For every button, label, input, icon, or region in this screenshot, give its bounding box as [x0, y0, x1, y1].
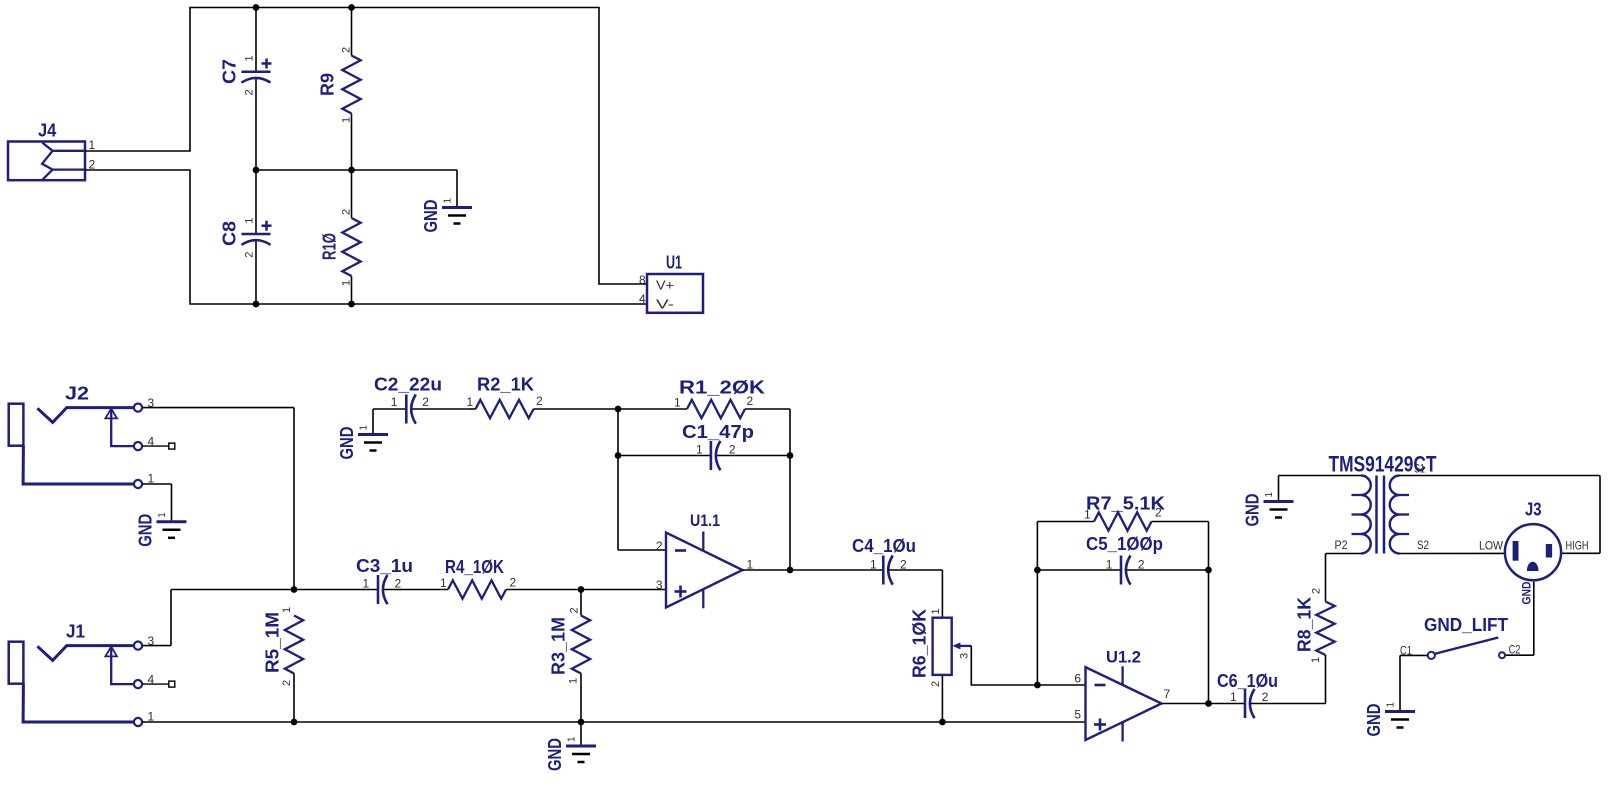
pin labels R3: [568, 607, 581, 684]
capacitor C3: [378, 575, 388, 604]
capacitor C8: [242, 170, 272, 304]
ground GND6: [1385, 712, 1415, 728]
label R5: [263, 612, 283, 673]
pin labels C7: [244, 55, 256, 95]
svg-text:1: 1: [1310, 657, 1322, 663]
op-amp U1.1: [666, 532, 743, 609]
capacitor C6: [1245, 689, 1326, 718]
svg-text:2: 2: [1138, 557, 1145, 571]
svg-text:S2: S2: [1417, 538, 1429, 552]
wire switch C1 to ground: [1400, 655, 1428, 711]
svg-text:2: 2: [341, 209, 353, 215]
resistor R1: [618, 400, 790, 418]
junction R5 top: [291, 586, 298, 593]
pin 1 label GND4: [567, 736, 578, 742]
connector J1: [9, 642, 175, 727]
svg-text:2: 2: [244, 252, 256, 258]
svg-text:C5_1ØØp: C5_1ØØp: [1086, 534, 1163, 554]
svg-text:C2: C2: [1509, 643, 1521, 657]
pin labels J4: [89, 138, 96, 172]
junction R9 top: [348, 4, 355, 11]
capacitor C5: [1037, 556, 1208, 585]
junction C7 top: [253, 4, 260, 11]
pin labels J1: [148, 634, 155, 724]
switch GND_LIFT: [1428, 638, 1505, 660]
pin labels R6: [930, 608, 971, 687]
label GND3 GND: [337, 427, 357, 460]
resistor R4: [448, 580, 506, 598]
resistor R9: [342, 8, 360, 171]
junction C1 left: [615, 452, 622, 459]
svg-text:C2_22u: C2_22u: [374, 375, 442, 395]
wire U1.2 feedback left vertical: [1036, 522, 1038, 686]
label U1.1: [690, 511, 720, 530]
svg-text:GND: GND: [337, 427, 357, 460]
pin labels C3: [363, 577, 402, 591]
power box U1: [647, 274, 703, 313]
wire J1 pin3 riser: [142, 590, 171, 646]
label GND_LIFT: [1424, 615, 1508, 635]
svg-text:1: 1: [244, 218, 256, 224]
svg-text:U1: U1: [666, 253, 682, 273]
junction R5 bottom: [291, 719, 298, 726]
wire J2 pin3 to input node: [142, 408, 294, 590]
wire U1.2 feedback right vertical: [1208, 522, 1210, 704]
svg-text:GND: GND: [545, 738, 565, 771]
svg-text:GND: GND: [1519, 581, 1533, 604]
ground GND4: [566, 746, 596, 762]
wire J3 ground pin to switch: [1505, 582, 1534, 656]
label C6: [1217, 671, 1278, 691]
svg-text:R8_1K: R8_1K: [1295, 597, 1315, 652]
capacitor C1: [618, 441, 790, 470]
connector J4: [8, 142, 85, 181]
label R1: [679, 378, 765, 398]
resistor R7: [1037, 512, 1208, 530]
svg-text:1: 1: [568, 678, 580, 684]
pin labels U1.1: [656, 539, 754, 592]
svg-text:4: 4: [148, 673, 155, 687]
junction C1 right: [787, 452, 794, 459]
wire C2 to ground: [372, 409, 374, 435]
svg-text:J1: J1: [66, 622, 85, 642]
label C2: [374, 375, 442, 395]
pin labels C4: [870, 557, 907, 571]
svg-text:C3_1u: C3_1u: [356, 556, 413, 576]
wire secondary bottom to J3 LOW: [1400, 552, 1505, 554]
svg-text:1: 1: [89, 138, 96, 152]
wire U1.2 output row: [1162, 703, 1246, 705]
svg-text:1: 1: [440, 576, 447, 590]
pin labels GND_LIFT: [1400, 643, 1521, 658]
resistor R8: [1316, 554, 1361, 704]
svg-text:1: 1: [1230, 690, 1237, 704]
wire J4 pin2 to bottom V- rail: [85, 170, 647, 304]
resistor R5: [285, 616, 303, 723]
capacitor C4: [883, 556, 942, 618]
svg-text:1: 1: [281, 607, 293, 613]
svg-text:1: 1: [870, 557, 877, 571]
svg-text:R1Ø: R1Ø: [320, 233, 340, 260]
svg-text:2: 2: [510, 576, 517, 590]
svg-text:7: 7: [1164, 687, 1171, 701]
wire R6 wiper to U1.2 inverting input: [971, 646, 1085, 685]
pin labels U1: [639, 273, 646, 306]
label R7: [1086, 494, 1165, 514]
junction C5 left: [1034, 567, 1041, 574]
svg-text:2: 2: [281, 680, 293, 686]
connector J2: [9, 404, 175, 489]
svg-text:GND: GND: [421, 200, 441, 233]
svg-text:1: 1: [467, 395, 474, 409]
junction C7-C8 mid: [253, 167, 260, 174]
pin labels transformer: [1335, 462, 1430, 553]
junction R3 top: [578, 586, 585, 593]
pin labels C8: [244, 218, 256, 258]
junction U1.2 inverting node: [1034, 682, 1041, 689]
svg-text:2: 2: [569, 607, 581, 613]
svg-text:R9: R9: [318, 73, 338, 96]
svg-text:1: 1: [567, 736, 578, 742]
ground GND5: [1264, 502, 1294, 518]
wire bottom rail: [142, 721, 1085, 723]
svg-text:2: 2: [536, 394, 543, 408]
potentiometer R6: [933, 618, 972, 722]
svg-text:R2_1K: R2_1K: [477, 375, 534, 395]
svg-text:2: 2: [930, 681, 942, 687]
label U1.2: [1106, 648, 1141, 667]
ground GND2: [157, 522, 187, 538]
label R10: [320, 233, 340, 260]
label C8: [220, 221, 240, 246]
svg-text:1: 1: [696, 443, 703, 457]
label R2: [477, 375, 534, 395]
svg-text:C6_1Øu: C6_1Øu: [1217, 671, 1278, 691]
svg-text:GND_LIFT: GND_LIFT: [1424, 615, 1508, 635]
svg-text:R3_1M: R3_1M: [549, 617, 569, 675]
wire feedback node to U1.1 inverting input: [618, 409, 666, 550]
svg-text:S1: S1: [1414, 462, 1425, 476]
svg-text:HIGH: HIGH: [1566, 539, 1589, 553]
pin labels R7: [1084, 506, 1162, 522]
pin 1 label GND1: [443, 198, 454, 204]
pin labels R1: [674, 394, 754, 410]
capacitor C7: [242, 8, 272, 171]
svg-text:4: 4: [148, 435, 155, 449]
svg-text:1: 1: [157, 512, 168, 518]
pin labels R8: [1310, 588, 1323, 663]
svg-text:C8: C8: [220, 221, 240, 246]
pin 1 label GND3: [359, 425, 370, 431]
label C5: [1086, 534, 1163, 554]
junction R10 bottom: [348, 301, 355, 308]
pin labels U1.2: [1074, 672, 1170, 722]
pin labels C6: [1230, 690, 1269, 704]
label GND1 GND: [421, 200, 441, 233]
pin 1 label GND2: [157, 512, 168, 518]
resistor R3: [572, 590, 590, 723]
svg-text:1: 1: [244, 55, 256, 61]
svg-text:R4_1ØK: R4_1ØK: [445, 557, 504, 577]
svg-text:3: 3: [959, 653, 971, 659]
pin labels R10: [341, 209, 353, 286]
wire U1.1 output row: [743, 569, 884, 571]
junction C8 bottom: [253, 301, 260, 308]
wire R1-C1 to U1.1 output: [789, 409, 791, 570]
svg-text:V-: V-: [656, 297, 674, 312]
svg-text:6: 6: [1074, 672, 1081, 686]
junction R3 bottom: [578, 719, 585, 726]
pin labels C1: [696, 443, 736, 457]
pin labels R2: [467, 394, 544, 409]
pin labels C2: [391, 395, 430, 409]
svg-text:2: 2: [422, 395, 429, 409]
connector J3: [1505, 524, 1561, 580]
junction U1.2 output: [1205, 700, 1212, 707]
junction R6 bottom: [939, 719, 946, 726]
wire input row: [171, 589, 666, 591]
svg-text:V+: V+: [656, 278, 674, 293]
svg-text:2: 2: [395, 577, 402, 591]
label C7: [220, 59, 240, 84]
wire J4 pin1 to top V+ rail: [85, 8, 647, 285]
svg-text:C4_1Øu: C4_1Øu: [852, 536, 916, 556]
resistor R2: [470, 400, 618, 418]
svg-text:P2: P2: [1335, 538, 1348, 552]
svg-text:1: 1: [341, 280, 353, 286]
label TMS91429CT: [1329, 452, 1437, 477]
label J2: [65, 384, 89, 404]
svg-text:1: 1: [443, 198, 454, 204]
pin labels J3: [1479, 539, 1589, 605]
ground GND3: [358, 435, 388, 451]
label C1: [682, 422, 754, 442]
svg-text:1: 1: [1084, 508, 1091, 522]
svg-text:2: 2: [1155, 506, 1162, 520]
svg-text:1: 1: [1106, 557, 1113, 571]
pin labels R5: [281, 607, 293, 686]
pin labels C5: [1106, 557, 1145, 571]
svg-text:U1.1: U1.1: [690, 511, 720, 530]
label R4: [445, 557, 504, 577]
svg-text:C1_47p: C1_47p: [682, 422, 754, 442]
ground GND1: [442, 208, 472, 224]
capacitor C2: [373, 395, 470, 424]
svg-text:3: 3: [656, 578, 663, 592]
svg-text:2: 2: [900, 557, 907, 571]
svg-text:C7: C7: [220, 59, 240, 84]
transformer TMS91429CT: [1352, 476, 1410, 554]
label R3: [549, 617, 569, 675]
svg-text:2: 2: [747, 394, 754, 408]
pin 1 label GND6: [1386, 702, 1397, 708]
svg-text:5: 5: [1074, 708, 1081, 722]
svg-text:8: 8: [639, 273, 646, 287]
wire GND mid rail: [256, 170, 457, 208]
svg-text:J4: J4: [38, 121, 56, 141]
label C4: [852, 536, 916, 556]
wire R3 to ground: [580, 722, 582, 746]
svg-text:2: 2: [656, 539, 663, 553]
op-amp U1.2: [1086, 666, 1162, 741]
svg-text:2: 2: [1311, 588, 1323, 594]
svg-text:2: 2: [1262, 690, 1269, 704]
svg-text:1: 1: [391, 395, 398, 409]
label GND6 GND: [1364, 704, 1384, 737]
svg-text:2: 2: [341, 47, 353, 53]
svg-text:1: 1: [674, 396, 681, 410]
pin labels R4: [440, 576, 517, 590]
label J1: [66, 622, 85, 642]
svg-text:LOW: LOW: [1479, 539, 1504, 553]
wire J2 pin1 to ground: [142, 484, 171, 522]
svg-text:J3: J3: [1525, 500, 1542, 520]
svg-text:R6_1ØK: R6_1ØK: [910, 609, 930, 678]
label GND4 GND: [545, 738, 565, 771]
svg-text:GND: GND: [136, 514, 156, 547]
wire primary top to ground: [1279, 476, 1362, 502]
pin 1 label GND5: [1264, 492, 1275, 498]
junction C5 right: [1205, 567, 1212, 574]
svg-text:1: 1: [341, 117, 353, 123]
pin labels J2: [148, 396, 155, 486]
wire secondary top to J3 HIGH: [1400, 476, 1601, 554]
label J4: [38, 121, 56, 141]
svg-text:R5_1M: R5_1M: [263, 612, 283, 673]
svg-text:GND: GND: [1364, 704, 1384, 737]
svg-text:1: 1: [930, 608, 942, 614]
svg-text:1: 1: [363, 577, 370, 591]
svg-text:2: 2: [244, 89, 256, 95]
label J3: [1525, 500, 1542, 520]
svg-text:1: 1: [1264, 492, 1275, 498]
junction U1.1 output: [787, 567, 794, 574]
svg-text:1: 1: [1386, 702, 1397, 708]
pin labels R9: [341, 47, 353, 123]
svg-text:U1.2: U1.2: [1106, 648, 1141, 667]
label C3: [356, 556, 413, 576]
label R8: [1295, 597, 1315, 652]
label R9: [318, 73, 338, 96]
junction R2-R1 node: [615, 406, 622, 413]
svg-text:R7_5.1K: R7_5.1K: [1086, 494, 1165, 514]
label GND5 GND: [1243, 494, 1263, 527]
svg-text:GND: GND: [1243, 494, 1263, 527]
svg-text:2: 2: [729, 443, 736, 457]
junction R9-R10 mid: [348, 167, 355, 174]
label GND2 GND: [136, 514, 156, 547]
resistor R10: [342, 170, 360, 304]
svg-text:J2: J2: [65, 384, 89, 404]
svg-text:4: 4: [639, 292, 646, 306]
svg-text:1: 1: [359, 425, 370, 431]
label U1: [666, 253, 682, 273]
label R6: [910, 609, 930, 678]
